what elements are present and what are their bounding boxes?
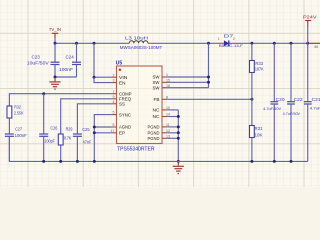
wire PGND pin 12 <box>167 132 178 134</box>
node C26 gnd <box>42 160 45 163</box>
node VIN tap <box>93 42 96 45</box>
svg-text:4.7uF/50V: 4.7uF/50V <box>283 111 301 116</box>
pin numbers left <box>111 73 115 133</box>
op-amp U1 : IC U5 TPS55340 body <box>116 61 162 153</box>
node R29 gnd <box>59 160 62 163</box>
wire NC pin 14 <box>167 116 178 118</box>
svg-text:1: 1 <box>218 37 220 41</box>
svg-text:SYNC: SYNC <box>119 112 131 117</box>
svg-text:C21: C21 <box>312 97 320 102</box>
wire SW vertical <box>208 43 210 87</box>
svg-text:SW: SW <box>153 85 161 90</box>
node C20 gnd <box>273 160 276 163</box>
resistor R31 <box>250 99 264 161</box>
capacitor C21 <box>304 43 320 161</box>
svg-text:4.7uF: 4.7uF <box>310 105 320 110</box>
capacitor C22 <box>283 43 304 161</box>
wire SW pin 15 <box>167 81 208 83</box>
ground (input caps) <box>49 78 60 90</box>
svg-text:2: 2 <box>113 73 115 77</box>
wire PGND vertical to ground <box>177 110 179 161</box>
svg-text:5: 5 <box>113 111 115 115</box>
diode D7 <box>218 34 244 49</box>
svg-text:C26: C26 <box>50 126 58 131</box>
wire FB net <box>167 98 252 100</box>
wire top rail middle segment <box>151 42 218 44</box>
svg-text:SW: SW <box>153 75 161 80</box>
wire EN branch <box>94 77 112 82</box>
svg-text:R29: R29 <box>66 127 73 132</box>
svg-text:C24: C24 <box>66 54 75 59</box>
node PGND11 <box>177 125 180 128</box>
svg-text:MWSA0603S-100MT: MWSA0603S-100MT <box>120 45 163 50</box>
wire FREQ net <box>61 99 112 134</box>
capacitor C27 <box>5 127 27 162</box>
svg-text:FB: FB <box>154 97 160 102</box>
svg-text:100nF: 100nF <box>59 67 74 72</box>
wire SS net <box>77 104 111 134</box>
svg-text:PGND: PGND <box>148 136 160 141</box>
node SW junctions <box>207 76 210 79</box>
node SW tap <box>207 42 210 45</box>
node C24 tap <box>75 42 78 45</box>
node C23 gnd <box>54 76 57 79</box>
wire NC pin 10 <box>167 109 178 111</box>
svg-text:C25: C25 <box>82 127 90 132</box>
node COMP/C26 <box>42 92 45 95</box>
power port 7V_IN <box>49 27 61 39</box>
svg-text:PGND: PGND <box>148 131 160 136</box>
capacitor C26 <box>39 94 58 162</box>
pin names right <box>148 75 161 141</box>
node 7V_IN/C23 <box>54 42 57 45</box>
capacitor C25 <box>73 127 92 162</box>
wire bottom ground rail <box>9 136 307 161</box>
svg-text:7: 7 <box>113 90 115 94</box>
pin names left <box>119 75 132 136</box>
svg-text:7V_IN: 7V_IN <box>49 27 61 32</box>
svg-text:M: M <box>315 45 318 49</box>
wire PGND pin 13 <box>167 137 178 139</box>
major grid lines <box>0 0 320 187</box>
node C22 gnd <box>290 160 293 163</box>
svg-text:10uF/50V: 10uF/50V <box>27 61 49 66</box>
svg-text:NC: NC <box>153 114 160 119</box>
node C20 tap <box>273 42 276 45</box>
node ground rail tap <box>177 160 180 163</box>
wire VIN drop <box>93 43 95 77</box>
svg-text:P24V: P24V <box>303 15 317 20</box>
node C25 gnd <box>76 160 79 163</box>
svg-text:EP: EP <box>119 131 125 136</box>
svg-text:C23: C23 <box>32 55 41 60</box>
node NC14 <box>177 115 180 118</box>
capacitor C23 <box>27 43 60 77</box>
svg-text:SW: SW <box>153 80 161 85</box>
wire off-sheet stub (red) <box>310 42 320 44</box>
resistor R33 <box>250 43 264 99</box>
ground (power ground) <box>173 162 184 174</box>
node R33 tap <box>250 42 253 45</box>
power port P24V <box>303 15 317 26</box>
svg-text:2.55K: 2.55K <box>14 111 24 116</box>
svg-text:4.7uF/50V: 4.7uF/50V <box>263 106 281 111</box>
svg-text:100pF: 100pF <box>44 138 55 143</box>
pin 2 VIN stub <box>112 76 117 78</box>
svg-text:B540C-13-F: B540C-13-F <box>219 43 244 48</box>
node AGND <box>93 126 96 129</box>
wire 7V_IN to top rail <box>54 39 56 44</box>
node C22 tap <box>290 42 293 45</box>
svg-text:9: 9 <box>113 95 115 99</box>
wire COMP net <box>9 94 111 106</box>
wire P24V to rail <box>307 26 309 43</box>
svg-text:2: 2 <box>233 37 235 41</box>
pin stubs left (VIN,EN,COMP,FREQ,SS,SYNC,AGND,EP) <box>112 77 117 133</box>
svg-text:4: 4 <box>113 100 115 104</box>
wire NC/PGND down-bus <box>167 110 178 161</box>
svg-text:187K: 187K <box>255 67 264 72</box>
node PGND12 <box>177 131 180 134</box>
node PGND13 <box>177 137 180 140</box>
svg-text:NC: NC <box>153 108 160 113</box>
node VIN/EN <box>93 76 96 79</box>
wire SW bus <box>167 43 208 87</box>
node AGND gnd <box>93 160 96 163</box>
capacitor C24 <box>59 43 81 77</box>
svg-text:3: 3 <box>113 79 115 83</box>
capacitor C20 <box>263 43 285 161</box>
wire SW pin 1 <box>167 76 208 78</box>
node: top rail junction dots <box>54 42 310 45</box>
wire VIN to pin <box>94 76 112 78</box>
svg-text:R31: R31 <box>255 126 264 131</box>
resistor R29 <box>58 127 73 162</box>
svg-text:EN: EN <box>119 80 126 85</box>
wire C23/C24 ground tie <box>55 76 77 78</box>
inductor L3 <box>120 35 163 50</box>
svg-text:6: 6 <box>113 123 115 127</box>
node EP <box>93 131 96 134</box>
resistor R32 <box>7 105 24 134</box>
wire SYNC net <box>94 115 111 162</box>
node NC/PGND junctions <box>177 115 180 163</box>
node P24V/C21 <box>306 42 309 45</box>
svg-text:R32: R32 <box>14 105 21 110</box>
wire AGND to bus <box>94 126 111 128</box>
svg-text:SS: SS <box>119 102 125 107</box>
svg-text:100nF: 100nF <box>15 133 28 138</box>
wire top rail right segment <box>235 42 310 44</box>
svg-text:R33: R33 <box>255 61 263 66</box>
svg-text:PGND: PGND <box>148 125 160 130</box>
svg-text:C27: C27 <box>15 127 22 132</box>
svg-text:TPS55340RTER: TPS55340RTER <box>117 146 155 152</box>
wire top rail left segment <box>55 42 127 44</box>
svg-text:AGND: AGND <box>119 125 131 130</box>
wire SW pin 16 <box>167 87 208 89</box>
node R31 gnd <box>250 160 253 163</box>
wire PGND pin 11 <box>167 126 178 128</box>
pin numbers right <box>166 73 170 138</box>
svg-text:47nF: 47nF <box>83 139 92 144</box>
pin stubs right (SW x3,FB,NC x2,PGND x3) <box>162 77 167 138</box>
node FB junction <box>250 98 253 101</box>
svg-text:L3 10uH: L3 10uH <box>125 35 148 40</box>
wire EP to bus <box>94 132 111 134</box>
node bottom rail junctions <box>42 160 292 163</box>
svg-text:10K: 10K <box>255 132 263 137</box>
svg-text:VIN: VIN <box>119 75 128 80</box>
svg-text:C22: C22 <box>294 97 304 102</box>
